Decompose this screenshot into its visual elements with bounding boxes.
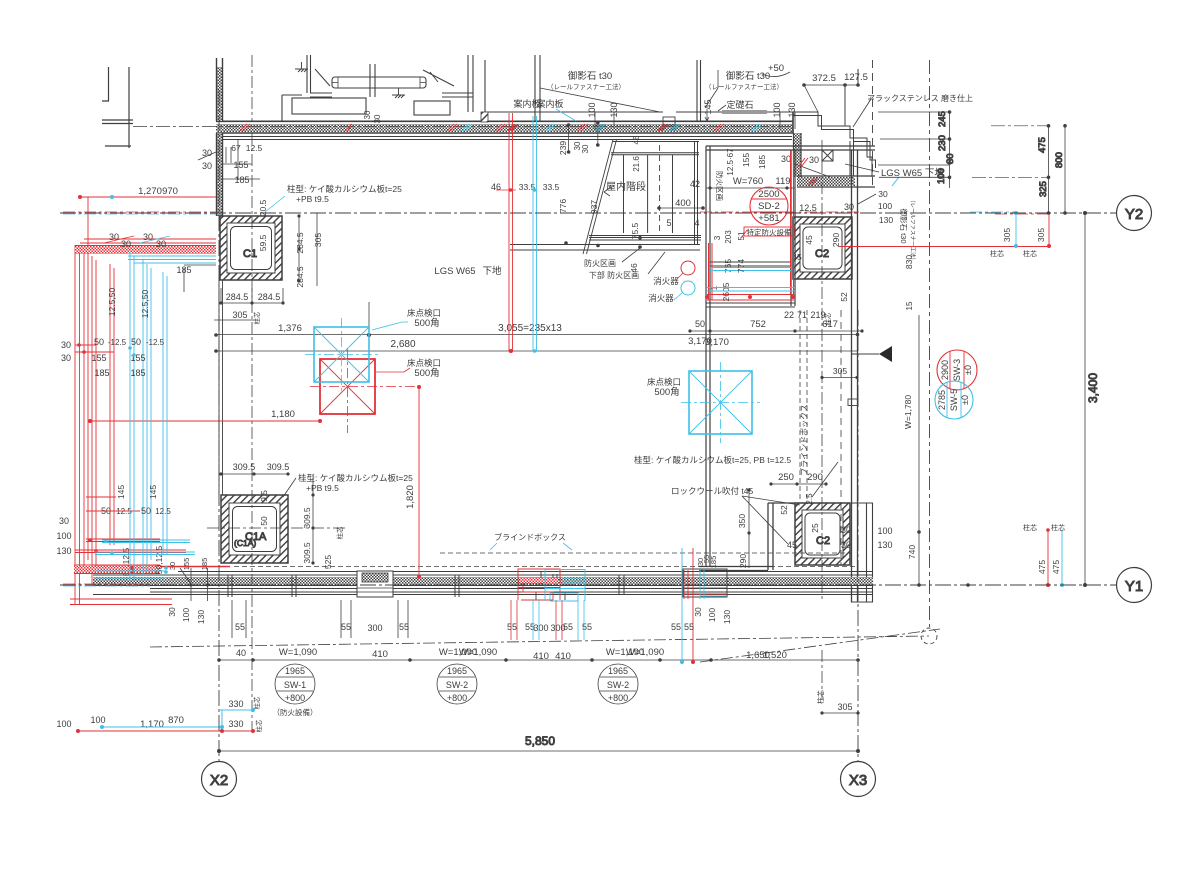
grid circle Y1 <box>1117 568 1152 603</box>
cyan SW-3 oval <box>935 381 973 419</box>
svg-text:柱芯: 柱芯 <box>823 312 832 326</box>
staircase direction arrow <box>604 187 611 196</box>
svg-text:2605: 2605 <box>721 282 731 301</box>
svg-text:185: 185 <box>94 368 109 378</box>
svg-text:250: 250 <box>778 472 794 483</box>
svg-text:284.5: 284.5 <box>258 292 281 302</box>
svg-text:30: 30 <box>61 340 71 350</box>
cyan extinguisher <box>681 281 695 295</box>
svg-text:2785: 2785 <box>937 390 947 410</box>
svg-text:柱型: ケイ酸カルシウム板t=25: 柱型: ケイ酸カルシウム板t=25 <box>287 184 402 194</box>
svg-text:245: 245 <box>937 111 948 127</box>
svg-text:防火区画: 防火区画 <box>715 171 725 201</box>
svg-text:30: 30 <box>844 202 854 212</box>
red SD-2 circle <box>750 187 788 225</box>
svg-text:柱芯: 柱芯 <box>335 526 344 540</box>
svg-text:100: 100 <box>878 201 892 211</box>
blind box dashed verticals <box>800 310 807 500</box>
red SW-3 oval <box>937 350 977 390</box>
svg-text:W=1,090: W=1,090 <box>459 647 497 658</box>
svg-text:1,376: 1,376 <box>278 323 302 334</box>
svg-text:45: 45 <box>804 235 814 245</box>
svg-text:740: 740 <box>907 545 917 559</box>
svg-text:100: 100 <box>56 719 71 729</box>
cyan Y2/Y1 overlays <box>63 213 216 215</box>
column C1 <box>220 216 282 280</box>
svg-text:400: 400 <box>675 198 691 209</box>
svg-text:50: 50 <box>259 516 269 526</box>
svg-text:203: 203 <box>724 230 733 244</box>
stair dim 400 line <box>659 207 703 209</box>
top wall band (main) <box>216 124 793 132</box>
svg-text:30: 30 <box>167 607 177 617</box>
svg-text:372.5: 372.5 <box>812 73 836 84</box>
svg-text:Y2: Y2 <box>1125 206 1143 223</box>
svg-text:+581: +581 <box>758 213 779 224</box>
SW-2 circle a <box>437 664 477 704</box>
svg-text:Y1: Y1 <box>1125 578 1143 595</box>
svg-text:柱芯: 柱芯 <box>1023 523 1037 532</box>
upper room walls <box>282 55 701 121</box>
svg-text:305: 305 <box>313 233 323 247</box>
svg-text:42: 42 <box>690 179 700 189</box>
right upper band segment <box>797 177 855 186</box>
svg-text:30: 30 <box>945 153 956 164</box>
svg-text:消火器: 消火器 <box>648 293 674 303</box>
svg-text:185: 185 <box>757 155 767 169</box>
svg-text:130: 130 <box>877 540 892 550</box>
cyan window overlay 3 <box>700 570 727 599</box>
svg-text:X3: X3 <box>849 772 867 789</box>
svg-text:1,270: 1,270 <box>138 186 162 197</box>
svg-text:4: 4 <box>694 218 699 228</box>
svg-text:15: 15 <box>905 301 914 310</box>
svg-text:30: 30 <box>202 148 212 158</box>
dashed circle bottom right <box>921 628 937 644</box>
svg-text:30: 30 <box>878 189 888 199</box>
left wall pier C1-C1A <box>219 280 223 495</box>
svg-text:-12.5: -12.5 <box>108 338 127 347</box>
svg-text:52: 52 <box>839 292 849 302</box>
svg-text:752: 752 <box>750 319 766 330</box>
svg-text:（レールファスナー工法）: （レールファスナー工法） <box>547 82 625 91</box>
svg-text:3,055=235x13: 3,055=235x13 <box>498 323 562 334</box>
svg-text:±0: ±0 <box>963 365 973 375</box>
svg-text:46: 46 <box>491 182 501 192</box>
svg-text:±0: ±0 <box>960 395 970 405</box>
svg-text:（防火設備）: （防火設備） <box>273 707 318 717</box>
X-box symbol <box>822 150 833 161</box>
svg-text:45: 45 <box>787 540 797 550</box>
bottom right L wall <box>699 503 795 571</box>
cyan mid room horizontals <box>707 268 795 292</box>
C1A horizontal axis <box>207 527 345 529</box>
left wall band to C1 <box>217 133 223 216</box>
svg-text:145: 145 <box>116 485 126 499</box>
svg-text:+800: +800 <box>447 693 467 703</box>
small box on right wall <box>848 399 858 406</box>
svg-text:30: 30 <box>156 239 166 249</box>
svg-text:100: 100 <box>56 531 71 541</box>
svg-text:309.5: 309.5 <box>302 542 312 564</box>
svg-text:+PB t9.5: +PB t9.5 <box>296 194 329 204</box>
svg-text:SW-2: SW-2 <box>446 680 468 690</box>
cyan verticals x534 <box>533 116 537 351</box>
svg-text:30: 30 <box>693 607 703 617</box>
svg-text:55: 55 <box>671 622 681 632</box>
board rect 2 <box>414 101 450 115</box>
svg-text:300: 300 <box>550 623 565 633</box>
dim line 2680 <box>216 350 858 352</box>
svg-text:+800: +800 <box>608 693 628 703</box>
svg-text:30: 30 <box>363 110 372 119</box>
svg-text:119: 119 <box>775 176 790 187</box>
svg-text:290: 290 <box>807 472 823 483</box>
svg-text:185: 185 <box>234 175 249 185</box>
bench counter <box>332 77 426 88</box>
red door SD-2 lines <box>707 151 794 300</box>
svg-text:284.5: 284.5 <box>226 292 249 302</box>
dim 3400 vertical <box>1084 213 1086 585</box>
svg-text:特定防火設備: 特定防火設備 <box>747 227 792 237</box>
svg-text:100: 100 <box>90 715 105 725</box>
svg-text:230: 230 <box>937 135 948 151</box>
svg-text:305: 305 <box>833 366 847 376</box>
svg-text:100: 100 <box>772 102 782 117</box>
red Y2 overlay right <box>700 212 1048 214</box>
svg-text:20.5: 20.5 <box>258 199 268 216</box>
svg-text:柱芯: 柱芯 <box>816 690 825 704</box>
svg-text:55: 55 <box>684 622 694 632</box>
svg-text:御影石 t30: 御影石 t30 <box>568 70 612 82</box>
red square hatch access <box>310 349 419 433</box>
svg-text:130: 130 <box>56 546 71 556</box>
svg-text:柱芯: 柱芯 <box>252 311 261 325</box>
svg-text:1965: 1965 <box>447 666 467 676</box>
right wall verticals <box>852 150 858 602</box>
svg-text:75.5: 75.5 <box>630 222 640 239</box>
svg-text:SW-1: SW-1 <box>284 680 306 690</box>
svg-text:12.5: 12.5 <box>246 143 263 153</box>
svg-text:100: 100 <box>181 608 191 622</box>
svg-text:ロックウール吹付 t45: ロックウール吹付 t45 <box>671 486 753 496</box>
svg-text:桂型: ケイ酸カルシウム板t=25, PB t=12.5: 桂型: ケイ酸カルシウム板t=25, PB t=12.5 <box>634 455 791 465</box>
svg-text:12.5: 12.5 <box>155 507 171 516</box>
svg-text:50: 50 <box>141 506 151 516</box>
svg-text:30: 30 <box>61 353 71 363</box>
red extinguisher <box>681 261 695 275</box>
ground symbol 1 <box>295 62 308 72</box>
svg-text:350: 350 <box>737 514 747 528</box>
svg-text:475: 475 <box>1051 560 1061 574</box>
red vertical 1820 <box>418 387 420 577</box>
svg-text:185: 185 <box>130 368 145 378</box>
top wall band centerline <box>133 126 793 128</box>
svg-text:325: 325 <box>1038 181 1049 197</box>
svg-text:柱芯: 柱芯 <box>990 249 1004 258</box>
red dim 1270 <box>80 196 216 198</box>
svg-text:12.5,50: 12.5,50 <box>107 288 117 317</box>
svg-text:50: 50 <box>695 319 705 329</box>
svg-text:305: 305 <box>837 702 852 712</box>
red window overlay SW-2 <box>518 569 560 600</box>
svg-text:127.5: 127.5 <box>844 72 868 83</box>
svg-text:475: 475 <box>1037 137 1048 153</box>
svg-text:55: 55 <box>507 622 517 632</box>
svg-text:309.5: 309.5 <box>233 462 256 472</box>
svg-text:(C1A): (C1A) <box>234 538 256 548</box>
svg-text:2,680: 2,680 <box>390 339 415 350</box>
svg-text:1,170: 1,170 <box>140 719 164 730</box>
red vertical right of block3 <box>692 548 694 662</box>
svg-text:1,180: 1,180 <box>271 409 295 420</box>
svg-text:130: 130 <box>879 215 893 225</box>
svg-text:SW-2: SW-2 <box>607 680 629 690</box>
svg-text:W=1,090: W=1,090 <box>279 647 317 658</box>
red left top horizontals <box>75 239 216 253</box>
svg-text:155: 155 <box>741 153 751 167</box>
svg-text:52: 52 <box>779 505 789 515</box>
svg-text:155: 155 <box>233 160 248 170</box>
svg-text:W=760: W=760 <box>733 176 763 187</box>
ground symbol 2 <box>392 88 405 98</box>
bottom band center block 1 <box>357 571 393 597</box>
svg-text:（レールファスナー工法）: （レールファスナー工法） <box>909 197 917 263</box>
svg-text:2500: 2500 <box>758 189 779 200</box>
svg-text:30: 30 <box>841 525 851 535</box>
svg-text:130: 130 <box>722 610 732 624</box>
red checker band left top <box>75 246 216 253</box>
svg-text:55: 55 <box>399 622 409 632</box>
cyan slashes top band <box>462 124 899 186</box>
bottom band mullions <box>228 575 624 597</box>
svg-text:71: 71 <box>797 310 807 320</box>
svg-text:100: 100 <box>707 608 717 622</box>
dashdot vertical x929 <box>929 60 931 627</box>
staircase treads <box>624 155 673 233</box>
svg-text:290: 290 <box>738 554 748 568</box>
svg-text:100: 100 <box>877 526 892 536</box>
board rect 1 <box>292 98 366 114</box>
svg-text:145: 145 <box>703 99 713 114</box>
grid line Y1 <box>60 584 1116 586</box>
red left bottom horizontals <box>70 497 186 605</box>
red left verticals <box>75 197 114 604</box>
svg-text:柱芯: 柱芯 <box>254 719 263 733</box>
red verticals x510 <box>509 113 513 351</box>
svg-text:59.5: 59.5 <box>258 234 268 251</box>
svg-text:W=1,780: W=1,780 <box>903 395 913 430</box>
svg-text:1,820: 1,820 <box>405 485 416 509</box>
svg-text:C1: C1 <box>243 248 257 260</box>
svg-text:305: 305 <box>1036 228 1046 242</box>
svg-text:155: 155 <box>182 558 191 571</box>
svg-text:12.5·67: 12.5·67 <box>726 148 735 176</box>
svg-text:1,650: 1,650 <box>746 650 770 661</box>
svg-text:870: 870 <box>168 715 184 726</box>
cyan vertical right of block3 <box>681 548 683 662</box>
svg-text:アラックステンレス 磨き仕上: アラックステンレス 磨き仕上 <box>867 93 973 103</box>
svg-text:305: 305 <box>1002 228 1012 242</box>
svg-text:30: 30 <box>809 155 819 165</box>
svg-text:柱芯: 柱芯 <box>1023 249 1037 258</box>
column C1A <box>221 495 288 563</box>
staircase slant edges <box>583 140 617 255</box>
svg-text:305: 305 <box>232 310 247 320</box>
dim 5850 <box>219 750 858 752</box>
upper room horizontals <box>282 93 793 112</box>
svg-text:+PB t9.5: +PB t9.5 <box>306 483 339 493</box>
column C2 bottom <box>795 503 850 565</box>
middle room horizontals <box>706 262 795 307</box>
svg-text:25: 25 <box>810 523 820 533</box>
red mid stubs <box>75 345 114 352</box>
svg-text:309.5: 309.5 <box>267 462 290 472</box>
svg-text:30: 30 <box>781 154 791 164</box>
svg-text:LGS W65: LGS W65 <box>434 266 475 277</box>
red bottom dim row <box>78 730 253 732</box>
svg-text:500角: 500角 <box>654 386 679 398</box>
svg-text:1965: 1965 <box>608 666 628 676</box>
dashed vertical x841 <box>840 310 842 565</box>
grid circle X2 <box>202 762 237 797</box>
svg-text:300: 300 <box>367 623 382 633</box>
svg-text:防火区画: 防火区画 <box>584 258 616 268</box>
svg-text:W=1,090: W=1,090 <box>626 647 664 658</box>
svg-text:67: 67 <box>231 143 241 153</box>
svg-text:案内板: 案内板 <box>536 98 563 109</box>
cyan bottom dim row <box>102 726 222 728</box>
dim line 1376/3055 <box>216 302 858 335</box>
svg-text:3,400: 3,400 <box>1086 373 1100 403</box>
svg-text:300: 300 <box>533 623 548 633</box>
top right step outline <box>793 69 876 177</box>
grid line Y2 <box>60 212 1116 214</box>
svg-text:284.5: 284.5 <box>295 266 305 288</box>
svg-text:30: 30 <box>373 114 382 123</box>
svg-text:12.5: 12.5 <box>799 203 817 213</box>
svg-text:30: 30 <box>202 161 212 171</box>
red Y2/Y1 overlay left <box>63 211 216 213</box>
svg-text:1965: 1965 <box>285 666 305 676</box>
column axis vertical x252 <box>251 55 253 730</box>
svg-text:+800: +800 <box>285 693 305 703</box>
cyan Y1 right block <box>1061 530 1063 585</box>
svg-text:30: 30 <box>581 144 590 153</box>
svg-text:55: 55 <box>341 622 351 632</box>
diagonal braces upper <box>315 69 454 86</box>
svg-text:定礎石: 定礎石 <box>726 99 753 110</box>
left wall dotted fill <box>217 67 222 121</box>
dashdot vertical x872 <box>872 60 874 190</box>
long diagonal dashdot leaders <box>150 629 940 662</box>
svg-text:284.5: 284.5 <box>295 232 305 254</box>
svg-text:床点検口: 床点検口 <box>407 308 441 318</box>
red slashes right band <box>798 158 818 186</box>
svg-text:185: 185 <box>709 556 718 569</box>
svg-text:475: 475 <box>1037 560 1047 574</box>
bottom band block 3 <box>683 569 727 597</box>
stair dim stubs <box>569 123 598 152</box>
inner wall lines below band <box>222 137 792 140</box>
svg-text:21.6: 21.6 <box>632 156 641 172</box>
grid line X2 <box>218 90 220 761</box>
svg-text:239: 239 <box>558 141 568 155</box>
svg-text:御影石 t30: 御影石 t30 <box>899 208 909 243</box>
svg-text:+50: +50 <box>768 63 784 74</box>
svg-text:5,850: 5,850 <box>525 734 555 748</box>
svg-text:柱芯: 柱芯 <box>1051 523 1065 532</box>
svg-text:消火器: 消火器 <box>653 276 679 286</box>
cyan left bottom horizontals <box>95 540 195 578</box>
svg-text:100: 100 <box>587 102 597 117</box>
svg-text:330: 330 <box>228 699 243 709</box>
SW-1 circle <box>273 664 318 717</box>
red dim 1180 <box>90 420 320 422</box>
svg-text:2.5: 2.5 <box>805 493 814 505</box>
svg-text:9.5: 9.5 <box>259 490 269 502</box>
column C2 top <box>793 217 852 279</box>
svg-text:C2: C2 <box>816 535 830 547</box>
svg-text:937: 937 <box>589 200 599 214</box>
red Y2 right block <box>839 213 1049 247</box>
svg-text:500角: 500角 <box>414 367 439 379</box>
svg-text:410: 410 <box>555 651 571 662</box>
blind box dashed horizontal <box>234 553 858 567</box>
SW-2 circle b <box>598 664 638 704</box>
svg-text:774: 774 <box>736 259 746 273</box>
right dim lines near Y2 <box>878 112 950 188</box>
svg-text:床点検口: 床点検口 <box>407 358 441 368</box>
svg-text:410: 410 <box>533 651 549 662</box>
svg-text:御影石 t30: 御影石 t30 <box>726 70 770 82</box>
svg-text:30: 30 <box>59 516 69 526</box>
svg-text:下部 防火区画: 下部 防火区画 <box>589 270 639 280</box>
svg-text:800: 800 <box>1054 152 1065 168</box>
svg-text:30: 30 <box>841 540 851 550</box>
svg-text:30: 30 <box>121 239 131 249</box>
svg-text:ブラインドボックス: ブラインドボックス <box>799 404 809 476</box>
bottom band center block 2 <box>536 572 565 600</box>
top-left exterior wall fragment <box>102 67 133 148</box>
svg-text:130: 130 <box>196 610 206 624</box>
red fire equipment box <box>744 227 794 236</box>
cyan access square left <box>305 318 378 392</box>
svg-text:330: 330 <box>228 719 243 729</box>
svg-text:525: 525 <box>323 555 333 569</box>
svg-text:500角: 500角 <box>414 317 439 329</box>
svg-text:3,170: 3,170 <box>705 337 729 348</box>
staircase outline <box>510 140 701 251</box>
cyan dim 970 <box>110 195 114 199</box>
svg-text:290: 290 <box>831 233 841 247</box>
svg-text:55: 55 <box>235 622 245 632</box>
svg-text:46: 46 <box>632 135 641 144</box>
svg-text:床点検口: 床点検口 <box>647 377 681 387</box>
svg-text:130: 130 <box>787 102 797 117</box>
red Y1 right block <box>1047 530 1049 585</box>
svg-text:柱芯: 柱芯 <box>252 696 261 710</box>
svg-text:-12.5: -12.5 <box>146 338 165 347</box>
svg-text:ブラインドボックス: ブラインドボックス <box>494 532 566 542</box>
cyan Y2 right block <box>1015 213 1017 246</box>
grid line X3 <box>857 310 859 761</box>
svg-text:50: 50 <box>131 337 141 347</box>
red window overlay 3 <box>684 570 727 599</box>
dashdot vertical x822 (C2 axis) <box>821 140 823 700</box>
svg-text:12.5,50: 12.5,50 <box>140 290 150 319</box>
svg-text:55: 55 <box>525 622 535 632</box>
